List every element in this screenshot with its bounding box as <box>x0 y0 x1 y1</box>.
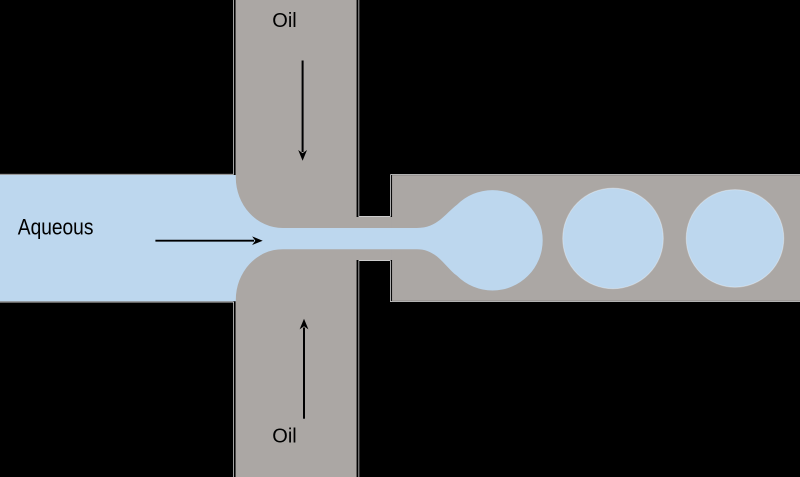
aqueous stream (left channel + focusing funnel + thin jet + forming droplet) <box>0 175 543 301</box>
white gap line below aqueous inlet <box>0 301 234 303</box>
white gap line left of outlet channel upper <box>390 175 392 216</box>
outline stroke left wall of vertical channel lower <box>234 301 236 477</box>
outline stroke left edge of outlet channel lower <box>390 260 392 301</box>
outlet channel right (gray fill) <box>392 175 800 301</box>
white gap line right of vertical channel upper <box>358 0 360 216</box>
svg-text:Aqueous: Aqueous <box>18 214 94 239</box>
white gap line above aqueous inlet <box>0 173 234 175</box>
white gap line above outlet channel <box>390 173 800 175</box>
white gap line under upper wall block <box>359 216 391 218</box>
svg-text:Oil: Oil <box>272 426 296 448</box>
svg-text:Oil: Oil <box>272 10 296 32</box>
outline stroke left edge of outlet channel upper <box>390 175 392 217</box>
white gap line over lower wall block <box>359 260 391 262</box>
arrow oil flow up <box>303 328 305 419</box>
droplet 2 <box>563 188 664 289</box>
oil channel vertical (gray fill) <box>235 0 356 477</box>
droplet 3 <box>686 190 784 288</box>
white gap line left of outlet channel lower <box>390 261 392 302</box>
white gap line left of vertical channel lower <box>233 302 235 477</box>
orifice channel (gray fill) <box>356 217 392 260</box>
arrow oil flow down <box>302 61 304 153</box>
outline stroke left wall of vertical channel upper <box>234 0 236 175</box>
outline stroke right wall of vertical channel lower <box>357 260 359 477</box>
white gap line below outlet channel <box>390 301 800 303</box>
arrow aqueous flow right <box>155 240 254 242</box>
white gap line left of vertical channel upper <box>233 0 235 175</box>
outline stroke right wall of vertical channel upper <box>357 0 359 217</box>
white gap line right of vertical channel lower <box>358 261 360 477</box>
